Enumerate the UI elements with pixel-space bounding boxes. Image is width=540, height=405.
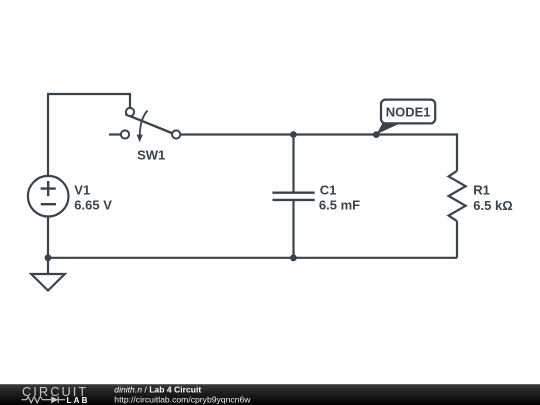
- svg-text:6.65 V: 6.65 V: [74, 198, 112, 213]
- switch actuation arrow: [140, 111, 148, 136]
- wire ground stem: [47, 258, 49, 274]
- wire V1 bottom: [47, 217, 49, 258]
- svg-text:LAB: LAB: [67, 396, 90, 405]
- wire switch left stub: [109, 133, 121, 135]
- svg-text:C1: C1: [320, 183, 337, 198]
- ground: [31, 274, 65, 291]
- switch SW1: [121, 108, 180, 142]
- voltage source V1: [28, 176, 69, 217]
- junction dot V1/ground: [45, 254, 52, 261]
- switch right throw terminal: [172, 130, 180, 138]
- junction dot C1 bottom: [290, 254, 297, 261]
- wire capacitor bottom: [292, 201, 294, 258]
- resistor R1: [449, 171, 466, 221]
- switch pole terminal: [126, 108, 134, 116]
- wire capacitor top: [292, 135, 294, 192]
- capacitor C1: [272, 193, 314, 200]
- wire top-left from V1 top to switch pole: [48, 94, 130, 176]
- wire bottom rail: [48, 257, 457, 259]
- NODE1 callout: [377, 100, 436, 135]
- svg-text:V1: V1: [74, 183, 90, 198]
- svg-text:6.5 kΩ: 6.5 kΩ: [473, 198, 512, 213]
- svg-text:R1: R1: [473, 183, 490, 198]
- svg-text:http://circuitlab.com/cpryb9yq: http://circuitlab.com/cpryb9yqncn6w: [114, 394, 251, 404]
- logo resistor-diode glyph: [22, 396, 66, 403]
- svg-text:SW1: SW1: [137, 147, 165, 162]
- junction dot C1 top: [290, 131, 297, 138]
- svg-text:6.5 mF: 6.5 mF: [319, 198, 360, 213]
- svg-text:dinith.n / Lab 4 Circuit: dinith.n / Lab 4 Circuit: [114, 384, 201, 394]
- footer bar: [0, 384, 540, 405]
- svg-text:NODE1: NODE1: [386, 104, 431, 119]
- switch blade: [125, 114, 172, 133]
- wire R1 bottom: [456, 221, 458, 258]
- wire top rail from switch to R1 corner: [180, 135, 457, 171]
- node NODE1 dot: [373, 131, 380, 138]
- switch left throw terminal: [121, 130, 129, 138]
